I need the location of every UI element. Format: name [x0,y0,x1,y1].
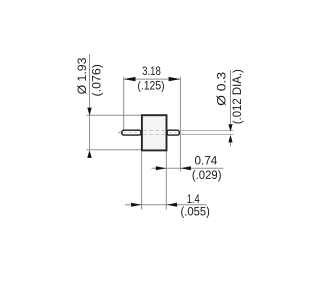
svg-text:0.74: 0.74 [195,155,218,168]
svg-text:3.18: 3.18 [142,65,161,78]
svg-text:(.076): (.076) [90,64,104,96]
svg-text:(.029): (.029) [192,170,222,182]
svg-text:(.055): (.055) [181,207,210,219]
svg-text:(.012 DIA.): (.012 DIA.) [232,69,244,124]
svg-text:Ø 1.93: Ø 1.93 [75,57,89,94]
svg-text:1.4: 1.4 [187,193,200,206]
svg-text:Ø 0.3: Ø 0.3 [214,72,228,106]
svg-text:(.125): (.125) [137,80,164,93]
